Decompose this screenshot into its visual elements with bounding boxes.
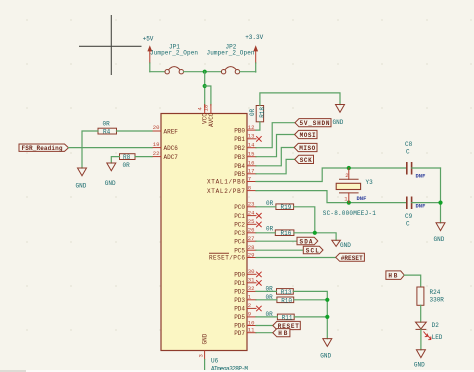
resistor R13 (PD2): [266, 285, 294, 296]
svg-text:HB: HB: [388, 273, 397, 280]
pin 25 PC2: [234, 218, 261, 228]
pin 4 VCC: [197, 105, 209, 125]
svg-text:+5V: +5V: [143, 36, 154, 43]
svg-text:LED: LED: [432, 334, 443, 341]
pin 15 PB3: [234, 151, 256, 161]
pin 18 AVCC: [203, 105, 215, 128]
global label SCK: [295, 155, 314, 164]
svg-text:ADC6: ADC6: [164, 145, 179, 152]
svg-text:DNF: DNF: [416, 203, 426, 210]
ground PC net: [332, 240, 351, 249]
wire R8 to ADC7: [135, 156, 152, 158]
svg-text:26: 26: [248, 227, 255, 234]
svg-text:AVCC: AVCC: [208, 112, 215, 127]
svg-text:C9: C9: [405, 213, 413, 220]
wire R8 left to GND: [111, 157, 119, 163]
svg-text:R11: R11: [282, 314, 293, 321]
svg-text:20: 20: [153, 124, 160, 131]
svg-text:SCL: SCL: [306, 248, 319, 255]
wire PC4 to SDA: [256, 240, 297, 242]
global label SDA: [297, 237, 318, 245]
svg-text:R18: R18: [259, 107, 266, 118]
svg-text:GND: GND: [414, 362, 425, 369]
node PD3 junction: [325, 298, 329, 302]
pin 11 PD7: [234, 327, 256, 337]
wire R16 to GND corner: [294, 233, 336, 241]
pin 19 ADC6: [152, 141, 178, 152]
pin 17 PB5: [234, 168, 256, 178]
svg-text:XTAL1/PB6: XTAL1/PB6: [207, 179, 245, 186]
svg-text:GND: GND: [434, 236, 445, 243]
resistor R10 (PD3): [266, 294, 294, 305]
wire PB0 to R18: [256, 122, 260, 130]
svg-text:C8: C8: [405, 141, 413, 148]
pin 10 PD6: [234, 319, 256, 329]
global label MOSI: [295, 130, 317, 139]
svg-text:XTAL2/PB7: XTAL2/PB7: [207, 188, 245, 195]
svg-text:PC4: PC4: [234, 238, 245, 245]
pin 16 PB4: [234, 160, 256, 170]
wire C8 right to GND rail: [412, 167, 441, 169]
svg-text:2: 2: [345, 172, 348, 179]
svg-text:R24: R24: [430, 289, 441, 296]
power symbol +3.3V: [245, 34, 263, 72]
svg-text:PD4: PD4: [234, 306, 245, 313]
svg-text:PD3: PD3: [234, 297, 245, 304]
ground caps: [434, 223, 446, 243]
wire JP1 to JP2: [184, 71, 222, 73]
node PD5 junction: [325, 315, 329, 319]
pin 22 ADC7: [152, 150, 178, 161]
svg-text:12: 12: [248, 124, 255, 131]
global label RESET: [273, 321, 301, 330]
global label HB (LED drive): [386, 271, 404, 280]
wire PB2 to 5V_SHDN: [256, 123, 295, 148]
wire PD5 to R11: [256, 316, 277, 318]
pin 3 GND bottom: [198, 333, 209, 359]
grid dots: [26, 19, 472, 331]
svg-text:R16: R16: [281, 230, 292, 237]
svg-text:0R: 0R: [249, 108, 256, 116]
svg-text:14: 14: [248, 142, 255, 149]
svg-text:Jumper_2_Open: Jumper_2_Open: [207, 50, 255, 57]
pin 9 PD5: [234, 311, 256, 321]
wire R10 to GND bus: [294, 299, 328, 301]
pin 26 PC3: [234, 227, 256, 237]
svg-text:3: 3: [198, 354, 205, 357]
wire PC0 to R19: [256, 206, 276, 208]
wire C9 right to GND rail: [412, 202, 441, 204]
IC U6 body: [161, 114, 247, 351]
svg-text:R8: R8: [123, 154, 131, 161]
svg-text:8: 8: [248, 184, 251, 191]
svg-text:19: 19: [153, 141, 160, 148]
global label MISO: [294, 143, 317, 152]
svg-text:22: 22: [153, 150, 160, 157]
svg-text:32: 32: [248, 285, 255, 292]
pin 7 XTAL1/PB6: [207, 175, 256, 185]
wire R4 to AREF: [117, 130, 153, 132]
node cap rail junction: [438, 201, 442, 205]
pin 13 PB1: [234, 133, 261, 143]
svg-text:Y3: Y3: [366, 179, 374, 186]
wire PD7 to HB label: [256, 332, 273, 334]
svg-text:PB5: PB5: [234, 171, 245, 178]
svg-text:0R: 0R: [123, 162, 131, 169]
svg-text:PD6: PD6: [234, 323, 245, 330]
svg-text:29: 29: [248, 251, 255, 258]
pin 29 RESET/PC6: [209, 251, 256, 261]
pin 2 PD4: [234, 302, 261, 312]
svg-text:GND: GND: [333, 119, 344, 126]
svg-text:GND: GND: [76, 183, 87, 190]
wire HB to R24: [404, 275, 420, 287]
svg-text:5V_SHDN: 5V_SHDN: [300, 120, 330, 127]
wire R24 to LED: [420, 305, 422, 322]
ground LED: [414, 350, 426, 369]
svg-text:PD5: PD5: [234, 314, 245, 321]
pin 14 PB2: [234, 142, 256, 152]
svg-text:10: 10: [248, 319, 255, 326]
wire R13 to GND bus: [293, 291, 327, 338]
svg-text:PD2: PD2: [234, 289, 245, 296]
svg-text:7: 7: [248, 175, 251, 182]
ground under R4: [76, 168, 87, 190]
LED D2: [416, 322, 443, 341]
svg-text:17: 17: [248, 168, 255, 175]
svg-text:11: 11: [248, 327, 255, 334]
svg-text:DNF: DNF: [416, 173, 426, 180]
svg-text:16: 16: [248, 160, 255, 167]
svg-text:0R: 0R: [266, 225, 274, 232]
resistor R11 (PD5): [266, 311, 295, 322]
svg-text:MISO: MISO: [299, 145, 315, 152]
svg-text:FSR_Reading: FSR_Reading: [22, 145, 63, 152]
wire PC3 to R16: [256, 232, 275, 234]
resistor R18 (PB0 pulldown): [249, 106, 266, 122]
resistor R8: [120, 154, 136, 169]
capacitor C8: [405, 141, 425, 180]
svg-text:24: 24: [248, 209, 255, 216]
svg-text:D2: D2: [432, 322, 440, 329]
svg-text:PC0: PC0: [234, 204, 245, 211]
svg-text:PD1: PD1: [234, 280, 245, 287]
wire junction down to VCC pin: [204, 72, 206, 105]
svg-text:#RESET: #RESET: [341, 255, 363, 262]
svg-text:2: 2: [248, 302, 251, 309]
pin 30 PD0: [234, 268, 261, 278]
pin 28 PC5: [234, 244, 256, 254]
svg-text:+3.3V: +3.3V: [245, 34, 263, 41]
svg-text:GND: GND: [340, 242, 351, 249]
wire PC5 to SCL: [256, 249, 303, 251]
wire JP2 to +3.3V: [240, 71, 256, 73]
resistor R19 (PC0): [266, 200, 294, 211]
pin 32 PD2: [234, 285, 256, 295]
wire PD2 to R13: [256, 290, 277, 292]
svg-text:15: 15: [248, 151, 255, 158]
svg-text:25: 25: [248, 218, 255, 225]
global label SCL: [303, 246, 323, 254]
jumper JP1: [150, 44, 198, 74]
pin 27 PC4: [234, 235, 256, 245]
svg-text:U6: U6: [211, 358, 219, 365]
svg-text:13: 13: [248, 133, 255, 140]
wire PD6 to RESET label: [256, 325, 273, 327]
svg-text:PD7: PD7: [234, 330, 245, 337]
pin 24 PC1: [234, 209, 261, 219]
resistor R24 330R: [417, 287, 444, 305]
wire +5V to JP1: [150, 71, 165, 73]
pin 12 PB0: [234, 124, 256, 134]
svg-text:SC-8.000MEEJ-1: SC-8.000MEEJ-1: [323, 210, 376, 217]
global label HB: [273, 329, 290, 338]
wire PB4 to MISO: [256, 148, 294, 166]
jumper JP2: [207, 44, 255, 74]
ground PD bus: [320, 339, 332, 360]
wire R18 top to GND: [260, 93, 340, 106]
svg-text:PB3: PB3: [234, 154, 245, 161]
svg-text:27: 27: [248, 235, 255, 242]
capacitor C9: [405, 197, 425, 228]
junction VCC feed: [203, 70, 207, 74]
svg-text:GND: GND: [202, 333, 209, 344]
node XTAL1/crystal junction: [347, 166, 351, 170]
svg-text:R4: R4: [103, 129, 111, 136]
power symbol +5V: [143, 36, 154, 72]
svg-text:RESET/PC6: RESET/PC6: [209, 255, 245, 262]
wire XTAL2 to C9: [256, 191, 407, 203]
wire FSR_Reading to ADC6: [69, 147, 153, 149]
wire LED to GND: [420, 329, 422, 349]
svg-text:MOSI: MOSI: [300, 132, 316, 139]
svg-text:PB0: PB0: [234, 127, 245, 134]
global label 5V_SHDN: [295, 119, 331, 128]
pin 20 AREF: [152, 124, 178, 135]
svg-text:23: 23: [248, 201, 255, 208]
global label #RESET: [336, 253, 365, 261]
wire cap GND rail: [440, 168, 442, 223]
svg-text:28: 28: [248, 244, 255, 251]
pin 1 PD3: [234, 294, 256, 304]
bottom edge strip: [0, 370, 474, 372]
node R16/R19 junction: [313, 231, 317, 235]
svg-text:30: 30: [248, 268, 255, 275]
svg-text:31: 31: [248, 277, 255, 284]
pin 31 PD1: [234, 277, 261, 287]
wire PB5 to SCK: [256, 159, 295, 173]
svg-text:0R: 0R: [103, 121, 111, 128]
svg-text:9: 9: [248, 311, 251, 318]
svg-text:18: 18: [203, 105, 210, 112]
svg-text:SCK: SCK: [300, 157, 312, 164]
resistor R4: [98, 121, 117, 136]
wire GND pin to sheet edge: [204, 360, 206, 372]
svg-text:PB1: PB1: [234, 136, 245, 143]
wire to AVCC pin: [205, 86, 211, 105]
svg-text:PC1: PC1: [234, 213, 245, 220]
svg-text:PC3: PC3: [234, 230, 245, 237]
wire RESET/PC6 to #RESET: [256, 257, 336, 259]
ground right of R18 net: [333, 105, 345, 127]
svg-text:Jumper_2_Open: Jumper_2_Open: [150, 50, 198, 57]
wire PD3 to R10: [256, 299, 277, 301]
wire R11 to GND bus: [294, 316, 327, 318]
svg-text:ADC7: ADC7: [164, 154, 179, 161]
svg-text:PB4: PB4: [234, 163, 245, 170]
wire R19 to PC3 net: [294, 207, 315, 233]
svg-text:SDA: SDA: [300, 239, 313, 246]
svg-text:PC5: PC5: [234, 247, 245, 254]
svg-text:PD0: PD0: [234, 272, 245, 279]
wire R4 left to GND: [82, 131, 98, 168]
svg-text:GND: GND: [320, 353, 331, 360]
global label FSR_Reading: [19, 144, 69, 152]
resistor R16 (PC3): [266, 225, 294, 237]
wire XTAL1 to C8: [256, 168, 407, 182]
svg-text:C: C: [406, 149, 410, 156]
sheet origin crosshair: [79, 15, 142, 75]
wire PB3 to MOSI: [256, 135, 295, 157]
svg-text:GND: GND: [105, 180, 116, 187]
svg-text:0R: 0R: [266, 200, 274, 207]
pin 8 XTAL2/PB7: [207, 184, 256, 194]
svg-text:PB2: PB2: [234, 145, 245, 152]
svg-text:R10: R10: [281, 297, 292, 304]
svg-text:R19: R19: [281, 204, 292, 211]
crystal Y3: [323, 168, 376, 217]
svg-text:C: C: [406, 221, 410, 228]
junction VCC/AVCC split: [203, 84, 207, 88]
ground under R8: [105, 163, 116, 187]
node XTAL2/crystal junction: [347, 201, 351, 205]
svg-text:HB: HB: [278, 330, 287, 337]
svg-text:330R: 330R: [430, 297, 445, 304]
svg-text:DNF: DNF: [357, 195, 367, 202]
svg-text:R13: R13: [281, 289, 292, 296]
svg-text:PC2: PC2: [234, 222, 245, 229]
pin 23 PC0: [234, 201, 256, 211]
svg-text:AREF: AREF: [164, 128, 179, 135]
